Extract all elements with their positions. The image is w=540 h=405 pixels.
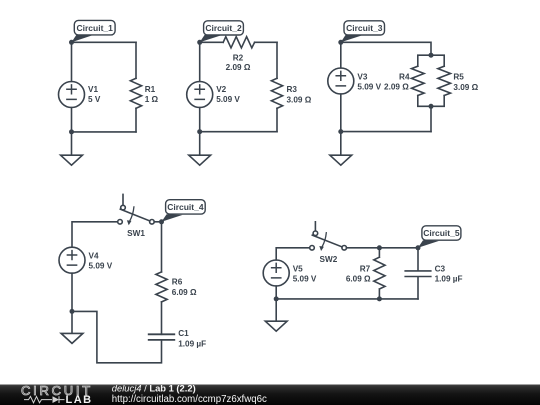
resistor R2 xyxy=(223,37,254,72)
svg-text:R2: R2 xyxy=(233,53,244,62)
svg-text:Circuit_1: Circuit_1 xyxy=(77,23,114,33)
capacitor C3 xyxy=(405,248,462,299)
callout Circuit_4 xyxy=(162,200,206,222)
svg-text:SW1: SW1 xyxy=(127,229,145,238)
svg-text:Circuit_4: Circuit_4 xyxy=(167,202,204,212)
wire switch-left C4 xyxy=(72,222,118,247)
node B2 xyxy=(197,129,202,134)
resistor R6 xyxy=(156,272,197,302)
resistor R4 xyxy=(384,66,424,95)
ground C1 xyxy=(61,132,83,165)
svg-text:2.09 Ω: 2.09 Ω xyxy=(384,82,409,91)
wire R6-C1 C4 xyxy=(161,302,163,334)
ground C3 xyxy=(330,132,352,166)
svg-text:delucj4 / Lab 1 (2.2): delucj4 / Lab 1 (2.2) xyxy=(112,383,196,394)
node T3 xyxy=(429,53,434,58)
svg-text:5.09 V: 5.09 V xyxy=(357,82,381,91)
node A2 xyxy=(197,40,202,45)
callout Circuit_1 xyxy=(72,20,116,42)
node B1 xyxy=(69,129,74,134)
wire bottom C4 xyxy=(72,311,162,362)
svg-text:5.09 V: 5.09 V xyxy=(293,275,317,284)
svg-text:R7: R7 xyxy=(360,265,371,274)
svg-text:R4: R4 xyxy=(399,72,410,81)
svg-text:R3: R3 xyxy=(287,85,298,94)
node U3 xyxy=(429,104,434,109)
svg-text:3.09 Ω: 3.09 Ω xyxy=(453,83,478,92)
node G5 xyxy=(274,296,279,301)
wire V5-top C5 xyxy=(276,248,310,260)
svg-text:Circuit_2: Circuit_2 xyxy=(205,23,242,33)
resistor R1 xyxy=(130,78,158,108)
wire V5-bottom C5 xyxy=(275,286,277,299)
footer title text xyxy=(112,383,267,405)
svg-text:V1: V1 xyxy=(88,85,98,94)
svg-text:R1: R1 xyxy=(145,85,156,94)
voltage source V3 xyxy=(328,68,382,94)
svg-text:1.09 µF: 1.09 µF xyxy=(435,274,463,283)
wire top C1 xyxy=(72,41,137,43)
svg-text:5.09 V: 5.09 V xyxy=(89,261,113,270)
svg-text:3.09 Ω: 3.09 Ω xyxy=(287,95,312,104)
wire V4-bottom C4 xyxy=(71,273,73,311)
node R5b xyxy=(377,296,382,301)
wire top C3 xyxy=(341,42,431,55)
svg-text:http://circuitlab.com/ccmp7z6x: http://circuitlab.com/ccmp7z6xfwq6c xyxy=(112,394,267,405)
wire left C3 xyxy=(340,42,342,131)
resistor R3 xyxy=(271,78,311,108)
svg-text:C3: C3 xyxy=(435,265,446,274)
wire right C2 xyxy=(276,42,278,131)
svg-text:LAB: LAB xyxy=(66,394,93,405)
svg-text:SW2: SW2 xyxy=(320,255,338,264)
wire left C1 xyxy=(71,42,73,132)
callout Circuit_2 xyxy=(200,21,244,43)
svg-text:5 V: 5 V xyxy=(88,95,101,104)
wire bottom C1 xyxy=(72,131,137,133)
voltage source V1 xyxy=(59,82,101,108)
node G4 xyxy=(70,309,75,314)
svg-text:5.09 V: 5.09 V xyxy=(216,95,240,104)
wire bottom C2 xyxy=(200,131,277,133)
svg-text:2.09 Ω: 2.09 Ω xyxy=(226,63,251,72)
callout Circuit_3 xyxy=(341,21,385,43)
wire parallel bottom C3 xyxy=(418,96,444,132)
node N5 xyxy=(416,245,421,250)
wire switch-right C5 xyxy=(347,247,419,249)
logo CIRCUIT LAB xyxy=(21,383,93,405)
svg-text:1.09 µF: 1.09 µF xyxy=(178,339,206,348)
footer bar xyxy=(0,385,540,405)
wire parallel top C3 xyxy=(418,55,444,66)
svg-text:C1: C1 xyxy=(178,329,189,338)
wire left C2 xyxy=(199,42,201,131)
svg-text:R6: R6 xyxy=(172,277,183,286)
wire switch-right C4 xyxy=(154,222,161,272)
node N4 xyxy=(159,219,164,224)
switch SW2 xyxy=(310,222,347,264)
node R5a xyxy=(377,245,382,250)
resistor R5 xyxy=(438,66,479,95)
ground C2 xyxy=(189,132,211,166)
svg-text:1 Ω: 1 Ω xyxy=(145,95,159,104)
svg-text:R5: R5 xyxy=(453,72,464,81)
svg-text:V2: V2 xyxy=(216,85,226,94)
voltage source V5 xyxy=(263,260,317,286)
node A1 xyxy=(69,40,74,45)
wire right C1 xyxy=(135,42,137,132)
svg-text:6.09 Ω: 6.09 Ω xyxy=(172,288,197,297)
callout Circuit_5 xyxy=(418,226,461,248)
voltage source V2 xyxy=(187,82,241,108)
ground C5 xyxy=(265,299,287,331)
svg-text:Circuit_5: Circuit_5 xyxy=(423,228,460,238)
switch SW1 xyxy=(118,194,155,237)
svg-text:V3: V3 xyxy=(357,72,367,81)
wire bottom C3 xyxy=(341,131,431,133)
node A3 xyxy=(338,40,343,45)
voltage source V4 xyxy=(59,247,113,273)
wire bottom C5 xyxy=(276,298,418,300)
svg-text:V5: V5 xyxy=(293,265,303,274)
svg-text:V4: V4 xyxy=(89,251,99,260)
svg-text:6.09 Ω: 6.09 Ω xyxy=(346,274,371,283)
resistor R7 xyxy=(346,248,385,299)
ground C4 xyxy=(61,311,83,343)
wire top C2 xyxy=(200,41,277,43)
node B3 xyxy=(338,129,343,134)
capacitor C1 xyxy=(149,329,206,348)
svg-text:Circuit_3: Circuit_3 xyxy=(346,23,383,33)
